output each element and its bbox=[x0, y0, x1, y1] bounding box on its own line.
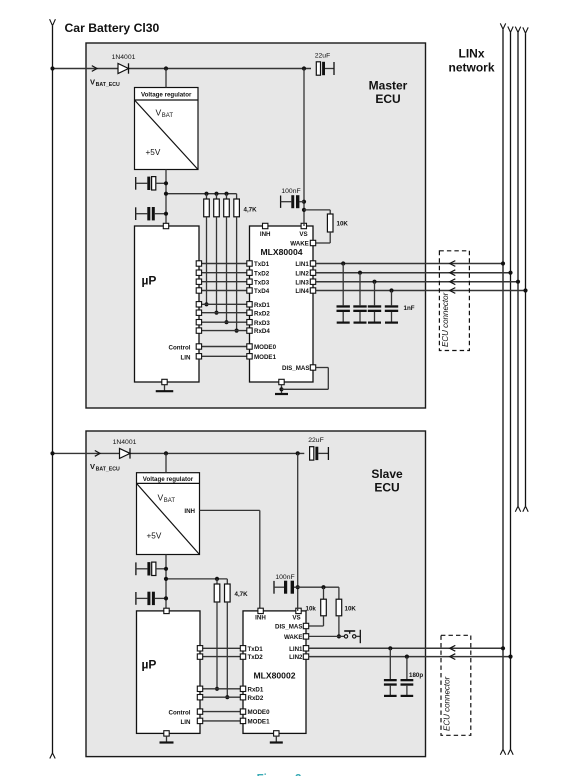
svg-text:LINx: LINx bbox=[458, 47, 484, 61]
svg-text:ECU: ECU bbox=[375, 92, 400, 106]
svg-text:BAT_ECU: BAT_ECU bbox=[96, 466, 120, 472]
svg-text:WAKE: WAKE bbox=[284, 634, 303, 641]
svg-text:V: V bbox=[90, 462, 95, 471]
svg-text:MODE0: MODE0 bbox=[254, 344, 277, 351]
svg-text:RxD2: RxD2 bbox=[254, 310, 270, 317]
svg-text:TxD1: TxD1 bbox=[254, 261, 270, 268]
svg-text:network: network bbox=[448, 61, 494, 75]
svg-text:LIN: LIN bbox=[181, 354, 191, 361]
svg-text:LIN: LIN bbox=[181, 719, 191, 726]
svg-text:LIN4: LIN4 bbox=[295, 288, 309, 295]
svg-text:BAT: BAT bbox=[164, 498, 176, 504]
svg-text:RxD4: RxD4 bbox=[254, 328, 270, 335]
svg-text:1N4001: 1N4001 bbox=[112, 54, 136, 61]
svg-text:V: V bbox=[156, 108, 162, 118]
svg-text:LIN1: LIN1 bbox=[295, 261, 309, 268]
svg-text:Control: Control bbox=[169, 345, 191, 352]
svg-text:DIS_MAS: DIS_MAS bbox=[275, 624, 303, 631]
svg-text:Slave: Slave bbox=[371, 467, 403, 481]
svg-text:10k: 10k bbox=[306, 605, 317, 612]
svg-text:1nF: 1nF bbox=[404, 305, 415, 312]
svg-text:+5V: +5V bbox=[146, 148, 161, 157]
svg-text:TxD1: TxD1 bbox=[248, 646, 264, 653]
svg-text:BAT_ECU: BAT_ECU bbox=[96, 82, 120, 88]
svg-text:ECU: ECU bbox=[374, 481, 399, 495]
svg-text:100nF: 100nF bbox=[281, 188, 300, 195]
svg-text:4,7K: 4,7K bbox=[235, 591, 249, 598]
svg-text:Voltage regulator: Voltage regulator bbox=[141, 92, 192, 99]
svg-text:V: V bbox=[158, 493, 164, 503]
svg-text:MODE1: MODE1 bbox=[254, 354, 277, 361]
svg-text:100nF: 100nF bbox=[275, 574, 294, 581]
svg-text:RxD3: RxD3 bbox=[254, 320, 270, 327]
svg-text:Master: Master bbox=[369, 79, 408, 93]
svg-text:V: V bbox=[90, 78, 95, 87]
svg-text:TxD2: TxD2 bbox=[254, 270, 270, 277]
svg-text:LIN1: LIN1 bbox=[289, 646, 303, 653]
svg-text:Car Battery Cl30: Car Battery Cl30 bbox=[65, 21, 160, 35]
svg-text:RxD2: RxD2 bbox=[248, 695, 264, 702]
svg-text:TxD2: TxD2 bbox=[248, 654, 264, 661]
svg-text:Voltage regulator: Voltage regulator bbox=[143, 476, 194, 483]
svg-text:RxD1: RxD1 bbox=[254, 302, 270, 309]
svg-text:TxD4: TxD4 bbox=[254, 288, 270, 295]
svg-text:INH: INH bbox=[184, 508, 195, 515]
svg-text:LIN3: LIN3 bbox=[295, 279, 309, 286]
svg-text:INH: INH bbox=[255, 615, 266, 622]
svg-text:LIN2: LIN2 bbox=[295, 270, 309, 277]
svg-text:RxD1: RxD1 bbox=[248, 686, 264, 693]
svg-text:1N4001: 1N4001 bbox=[113, 439, 137, 446]
svg-text:BAT: BAT bbox=[162, 113, 174, 119]
svg-text:ECU connector: ECU connector bbox=[441, 292, 450, 347]
svg-text:µP: µP bbox=[142, 657, 157, 671]
svg-text:MODE1: MODE1 bbox=[248, 719, 271, 726]
svg-text:Control: Control bbox=[169, 710, 191, 717]
svg-text:ECU connector: ECU connector bbox=[443, 676, 452, 731]
svg-text:INH: INH bbox=[260, 231, 271, 238]
svg-text:10K: 10K bbox=[337, 220, 349, 227]
svg-text:4,7K: 4,7K bbox=[244, 207, 258, 214]
svg-text:22uF: 22uF bbox=[315, 52, 331, 59]
svg-text:µP: µP bbox=[142, 274, 157, 288]
svg-text:MODE0: MODE0 bbox=[248, 709, 271, 716]
svg-text:LIN2: LIN2 bbox=[289, 654, 303, 661]
svg-text:180p: 180p bbox=[409, 672, 423, 679]
svg-text:+5V: +5V bbox=[147, 532, 162, 541]
svg-text:VS: VS bbox=[299, 231, 307, 238]
svg-text:10K: 10K bbox=[345, 605, 357, 612]
svg-text:DIS_MAS: DIS_MAS bbox=[282, 365, 310, 372]
svg-text:VS: VS bbox=[292, 615, 300, 622]
svg-text:MLX80002: MLX80002 bbox=[253, 671, 295, 681]
svg-text:MLX80004: MLX80004 bbox=[260, 247, 302, 257]
svg-text:TxD3: TxD3 bbox=[254, 279, 270, 286]
svg-text:22uF: 22uF bbox=[308, 437, 324, 444]
